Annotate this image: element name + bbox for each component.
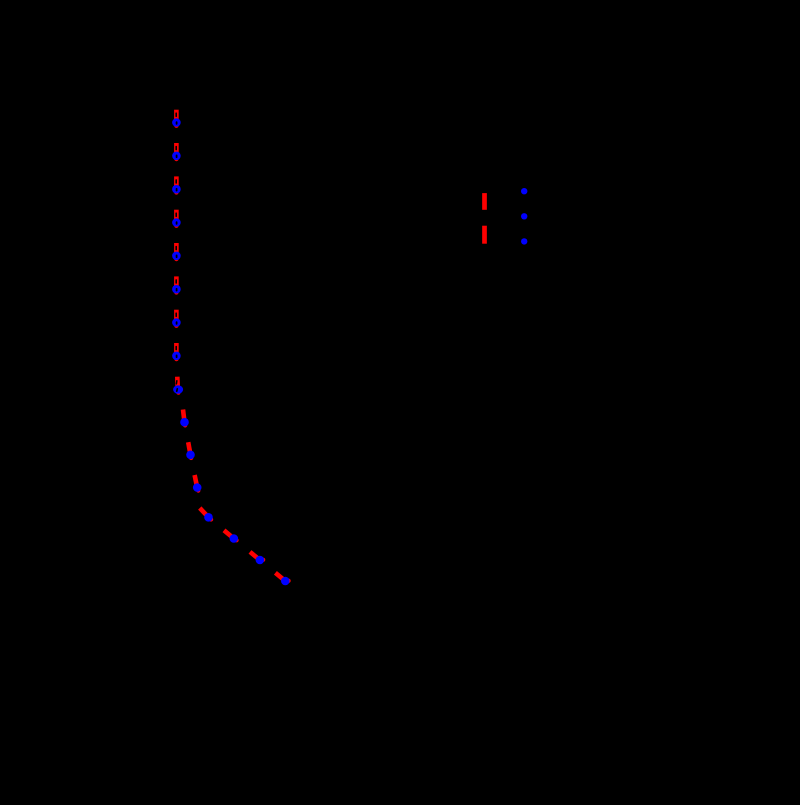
black slit over dash 3 (175, 179, 177, 184)
red dash tip 14 (234, 539, 237, 541)
red dash segment 5 (174, 243, 179, 256)
blue data point 14 (230, 534, 239, 543)
red dash segment 16 (275, 573, 285, 581)
blue data point 6 (172, 285, 181, 294)
red dash tip 8 (174, 356, 179, 359)
red dash tip 10 (182, 422, 187, 425)
red dash segment 1 (174, 110, 179, 123)
red dash segment 4 (174, 210, 179, 223)
red dash tip 4 (174, 223, 178, 226)
black slit over point 8 (176, 355, 178, 359)
black slit over point 7 (176, 321, 178, 325)
red dash tip 16 (285, 579, 288, 584)
legend blue dotted line sample (521, 188, 527, 194)
red dash tip 15 (260, 558, 263, 563)
blue data point 16 (281, 577, 290, 586)
blue data point 7 (172, 318, 181, 327)
blue data point 15 (256, 556, 265, 565)
red dash segment 8 (174, 343, 179, 356)
red dash segment 13 (200, 508, 209, 517)
red dash tip 11 (188, 455, 193, 458)
black slit over dash 9 (176, 380, 178, 385)
blue data point 8 (172, 352, 181, 361)
black slit over dash 6 (175, 279, 177, 284)
red dash tip 3 (174, 189, 178, 192)
red dash segment 6 (174, 276, 179, 289)
red dash segment 10 (183, 410, 185, 423)
red dash segment 7 (174, 310, 179, 323)
red dash segment 9 (175, 377, 180, 390)
blue data point 3 (172, 185, 181, 194)
blue data point 1 (172, 118, 181, 127)
black slit over point 1 (176, 121, 178, 125)
red dash segment 15 (250, 552, 260, 560)
black slit over point 5 (176, 255, 178, 259)
red dash segment 3 (174, 176, 179, 189)
red dash tip 13 (209, 517, 212, 519)
red dash tip 7 (174, 323, 178, 326)
red dash segment 12 (195, 475, 198, 488)
black slit over dash 5 (175, 246, 177, 251)
red dash tip 6 (174, 289, 178, 292)
red dash tip 2 (174, 156, 178, 159)
black slit over dash 7 (175, 312, 177, 317)
black slit over point 3 (176, 188, 178, 192)
blue data point 4 (172, 218, 181, 227)
black slit over point 4 (176, 221, 178, 225)
red dash tip 5 (174, 256, 178, 259)
black slit over point 9 (176, 388, 179, 392)
black slit over dash 4 (175, 212, 177, 217)
red dash segment 14 (224, 530, 234, 538)
red dash tip 12 (197, 488, 198, 491)
black slit over point 2 (176, 155, 178, 159)
black slit over dash 8 (175, 346, 177, 351)
black slit over dash 2 (175, 146, 177, 151)
black slit over point 6 (176, 288, 178, 292)
red dash segment 2 (174, 143, 179, 156)
black slit over dash 1 (175, 112, 177, 117)
blue data point 10 (180, 418, 189, 427)
red dash tip 1 (174, 123, 178, 126)
blue data point 5 (172, 252, 181, 261)
blue data point 13 (204, 513, 213, 522)
blue data point 2 (172, 152, 181, 161)
blue data point 12 (193, 483, 202, 492)
red dash segment 11 (188, 442, 190, 455)
blue data point 9 (173, 385, 183, 394)
legend red dashed line sample (482, 193, 487, 210)
red dash tip 9 (176, 390, 181, 393)
blue data point 11 (186, 451, 195, 460)
